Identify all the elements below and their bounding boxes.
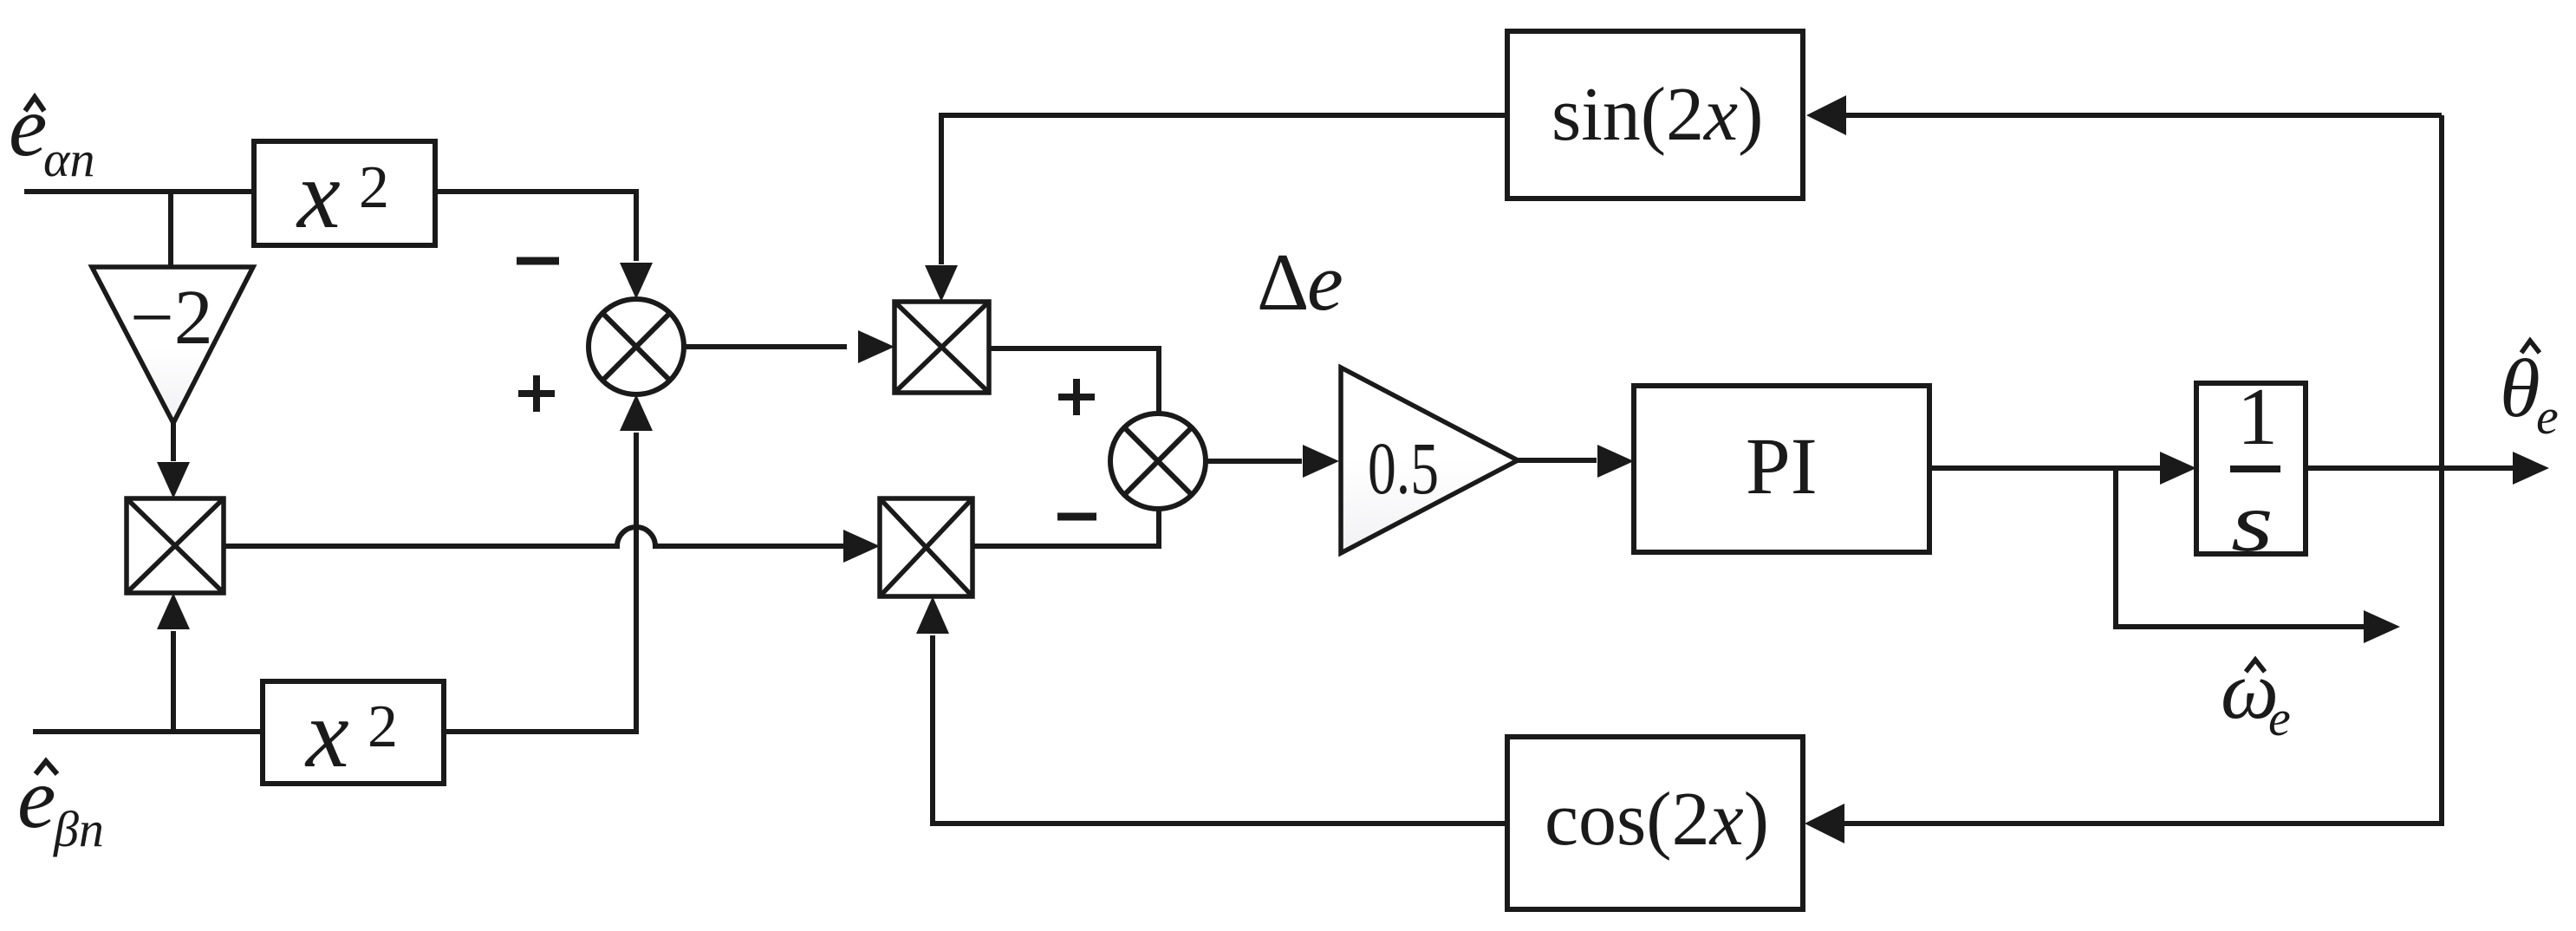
svg-text:cos(2x): cos(2x) [1545, 778, 1769, 862]
wire cos(2x) output to M3 bottom [933, 635, 1506, 824]
hat over e_beta [36, 761, 57, 774]
svg-text:Δ: Δ [1257, 238, 1309, 328]
svg-text:x: x [296, 141, 341, 249]
block cos(2x) [1507, 737, 1803, 909]
arrowhead into M3 left [843, 530, 880, 563]
arrowhead into S1 bottom [620, 394, 653, 431]
wire M1 output to M3 with hop over vertical [224, 527, 846, 546]
arrowhead into sin(2x) right [1806, 95, 1846, 135]
svg-text:2: 2 [368, 693, 398, 760]
block integrator 1/s [2196, 383, 2306, 554]
wire theta output [2306, 465, 2513, 471]
svg-text:PI: PI [1746, 422, 1818, 511]
svg-text:1: 1 [2237, 372, 2278, 462]
svg-text:e: e [2268, 690, 2291, 746]
node e_alpha_n input label [9, 78, 94, 187]
svg-text:θ: θ [2500, 342, 2540, 434]
arrowhead into cos(2x) right [1805, 804, 1844, 843]
arrowhead theta output [2513, 452, 2549, 485]
svg-text:e: e [2536, 388, 2559, 445]
summer S2 (circle with X) [1110, 413, 1206, 509]
wire feedback vertical line [2439, 115, 2444, 822]
wire M2 output to summer S2 top [989, 348, 1159, 416]
label theta_e estimate [2500, 342, 2559, 445]
wire gain 0.5 to PI [1518, 458, 1597, 463]
wire sin(2x) output to M2 top [941, 115, 1507, 264]
svg-text:−2: −2 [130, 275, 213, 361]
hat over omega [2246, 660, 2265, 672]
wire x^2 top output to summer S1 top [435, 192, 636, 261]
hat over e_alpha [25, 97, 44, 111]
multiplier M3 (lower square with X) [880, 498, 973, 596]
wire bottom feedback into cos(2x) [1841, 822, 2442, 824]
svg-text:2: 2 [359, 154, 389, 221]
wire S1 output to M2 [684, 344, 847, 349]
svg-text:e: e [9, 78, 47, 174]
multiplier M1 (square with X) [127, 498, 224, 593]
wire x^2 bottom output up to summer S1 bottom [444, 433, 636, 732]
node e_beta_n input label [17, 750, 104, 857]
arrowhead omega output [2364, 610, 2400, 643]
svg-text:αn: αn [43, 131, 94, 187]
svg-text:0.5: 0.5 [1368, 426, 1439, 510]
arrowhead into M1 top [157, 462, 190, 498]
wire gain -2 to multiplier M1 [171, 423, 176, 461]
minus sign at S2 bottom input [1057, 513, 1096, 521]
block x^2 (top squarer) [254, 141, 435, 245]
block sin(2x) [1507, 31, 1803, 199]
wire PI output to integrator [1929, 465, 2160, 471]
wire beta input line [33, 729, 263, 734]
wire M3 output to summer S2 bottom [973, 506, 1159, 546]
svg-text:sin(2x): sin(2x) [1551, 73, 1763, 157]
hat over theta [2521, 341, 2540, 353]
gain -2 triangle [92, 267, 253, 423]
arrowhead into M2 top [925, 265, 958, 302]
arrowhead into gain 0.5 [1303, 445, 1339, 478]
plus sign at S2 top input [1058, 379, 1095, 415]
wire branch to omega output [2116, 468, 2364, 627]
summer S1 (circle with X) [589, 299, 684, 394]
arrowhead into M2 left [858, 330, 894, 363]
gain 0.5 triangle [1341, 368, 1518, 553]
minus sign at S1 top input [517, 257, 559, 265]
wire beta input to M1 bottom [171, 631, 176, 732]
label omega_e estimate [2221, 644, 2291, 746]
svg-text:βn: βn [53, 801, 104, 857]
svg-text:e: e [1307, 238, 1343, 328]
svg-text:x: x [304, 680, 349, 788]
label delta-e [1257, 238, 1343, 328]
arrowhead into S1 top [620, 263, 653, 299]
arrowhead into 1/s [2160, 452, 2196, 485]
wire branch from alpha line down to gain -2 [168, 192, 173, 267]
plus sign at S1 bottom input [518, 375, 555, 412]
wire S2 output to gain 0.5 [1206, 459, 1302, 464]
multiplier M2 (upper square with X) [894, 302, 989, 393]
block PI controller [1634, 386, 1929, 552]
svg-text:s: s [2231, 476, 2274, 570]
wire alpha input line [24, 189, 254, 194]
wire top feedback into sin(2x) [1843, 113, 2442, 118]
arrowhead into PI [1597, 445, 1634, 478]
arrowhead into M3 bottom [916, 596, 949, 634]
block x^2 (bottom squarer) [263, 681, 444, 784]
arrowhead into M1 bottom [157, 593, 190, 629]
